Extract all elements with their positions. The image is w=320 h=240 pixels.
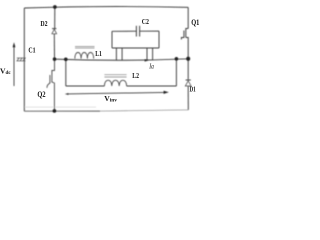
- wire D2 to node: [53, 34, 55, 59]
- svg-text:Vdc: Vdc: [0, 67, 11, 76]
- node dot (right rail junction): [186, 57, 190, 61]
- Ia current arrowhead on wire: [145, 59, 149, 61]
- svg-text:Ia: Ia: [149, 63, 155, 71]
- diode D1: [185, 80, 191, 86]
- wire C2 right U stub: [147, 48, 153, 60]
- svg-text:C2: C2: [142, 17, 149, 26]
- wire left rail: [23, 8, 25, 111]
- diode D2: [52, 29, 57, 34]
- capacitor C2 plates: [136, 26, 139, 37]
- wire L2 branch horizontal left: [66, 85, 105, 87]
- Vdc source arrow: [13, 47, 15, 86]
- wire C2 loop left side: [111, 31, 113, 48]
- node dot (Q2 source on bottom rail): [53, 109, 57, 113]
- node B dot (L2 branch tap): [64, 58, 68, 62]
- wire right rail mid: [187, 39, 189, 80]
- wire right rail upper: [187, 7, 189, 28]
- wire L2 branch horizontal right: [127, 85, 177, 87]
- svg-text:C1: C1: [28, 46, 35, 55]
- node dot top (D2 tap): [53, 5, 57, 9]
- inductor L2: [104, 75, 126, 86]
- node A dot (D2/Q2/wire): [53, 57, 57, 61]
- transistor Q1: [181, 29, 188, 40]
- wire L2 branch left vertical: [65, 59, 67, 86]
- svg-text:Q1: Q1: [191, 18, 199, 27]
- svg-text:Q2: Q2: [37, 90, 45, 99]
- capacitor C2 loop top-right: [140, 30, 159, 32]
- wire C2 loop bottom edges: [112, 47, 159, 49]
- wire bottom rail: [24, 110, 100, 112]
- svg-text:D2: D2: [40, 19, 47, 28]
- wire top rail: [24, 7, 188, 8]
- transistor Q2: [47, 59, 55, 111]
- wire C2 loop right side: [158, 31, 160, 48]
- wire L2 branch right vertical: [175, 59, 177, 86]
- wire middle horizontal: [55, 59, 189, 60]
- inductor L1: [75, 47, 95, 59]
- capacitor C1 (hatch squiggle on left rail): [17, 58, 26, 61]
- svg-text:L1: L1: [95, 49, 102, 58]
- node dot (L2 return tap): [175, 57, 179, 61]
- svg-text:Vinv: Vinv: [104, 94, 117, 103]
- Vinv arrow: [67, 92, 167, 94]
- wire C2 left U stub: [116, 48, 122, 61]
- wire right rail lower: [187, 86, 189, 110]
- capacitor C2 loop top-left: [112, 30, 136, 32]
- svg-text:D1: D1: [190, 86, 197, 94]
- wire D2 branch vertical: [54, 7, 56, 29]
- svg-text:L2: L2: [132, 71, 139, 80]
